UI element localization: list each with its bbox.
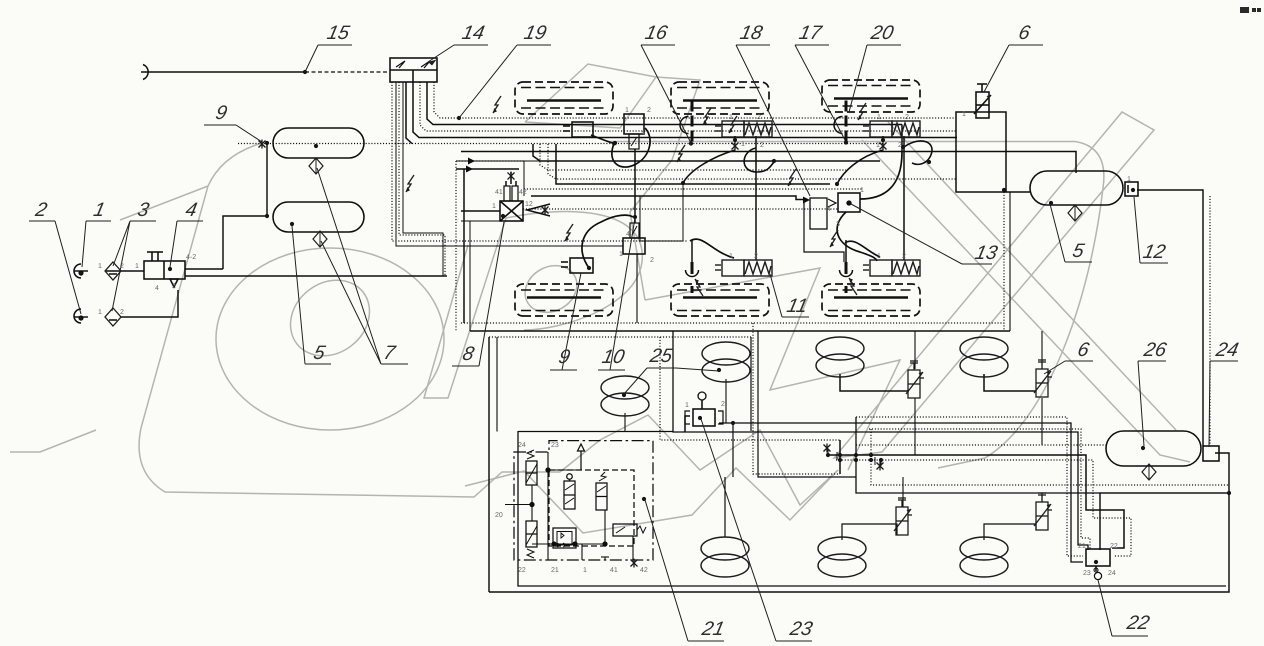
svg-text:26: 26 [1141,339,1169,361]
svg-text:2: 2 [760,142,764,149]
svg-text:2: 2 [120,263,124,270]
svg-text:2: 2 [120,309,124,316]
svg-text:12: 12 [525,201,533,208]
svg-text:1: 1 [860,187,864,194]
svg-text:1: 1 [583,567,587,574]
svg-text:1: 1 [625,107,629,114]
svg-text:1: 1 [729,114,733,121]
svg-text:4: 4 [626,231,630,238]
svg-text:2: 2 [757,114,761,121]
svg-text:24: 24 [1213,339,1241,361]
svg-text:1: 1 [98,309,102,316]
svg-text:1: 1 [741,141,745,148]
svg-text:1: 1 [135,263,139,270]
svg-text:22: 22 [518,567,526,574]
svg-text:2: 2 [898,142,902,149]
svg-text:23: 23 [787,618,815,640]
svg-text:24: 24 [1108,570,1116,577]
svg-text:1: 1 [492,203,496,210]
svg-text:2: 2 [172,283,176,290]
svg-text:1: 1 [962,111,966,118]
svg-text:2: 2 [754,253,758,260]
svg-text:3: 3 [836,221,840,228]
svg-text:2: 2 [721,401,725,408]
svg-text:41: 41 [495,189,503,196]
svg-text:23: 23 [551,442,559,449]
svg-text:21: 21 [699,618,726,640]
svg-text:2: 2 [647,107,651,114]
svg-text:21: 21 [1078,543,1086,550]
svg-text:4: 4 [827,206,831,213]
svg-text:25: 25 [647,345,675,367]
svg-text:2: 2 [905,114,909,121]
svg-text:1: 1 [877,114,881,121]
svg-text:22: 22 [1110,543,1118,550]
svg-text:2: 2 [902,253,906,260]
svg-text:4: 4 [641,130,645,137]
svg-text:1: 1 [685,402,689,409]
svg-text:22: 22 [1124,612,1152,634]
svg-text:1: 1 [1127,176,1131,183]
svg-text:1: 1 [877,253,881,260]
svg-text:2: 2 [650,257,654,264]
svg-text:1: 1 [876,142,880,149]
svg-text:42: 42 [640,567,648,574]
svg-text:1: 1 [98,263,102,270]
svg-text:1: 1 [619,251,623,258]
svg-text:4: 4 [155,285,159,292]
svg-text:42: 42 [519,189,527,196]
svg-text:21: 21 [551,567,559,574]
svg-text:20: 20 [868,22,896,44]
svg-text:23: 23 [1083,570,1091,577]
svg-text:1: 1 [729,253,733,260]
svg-text:4-2: 4-2 [186,254,196,261]
svg-text:24: 24 [518,442,526,449]
svg-text:20: 20 [495,512,503,519]
svg-text:41: 41 [610,567,618,574]
